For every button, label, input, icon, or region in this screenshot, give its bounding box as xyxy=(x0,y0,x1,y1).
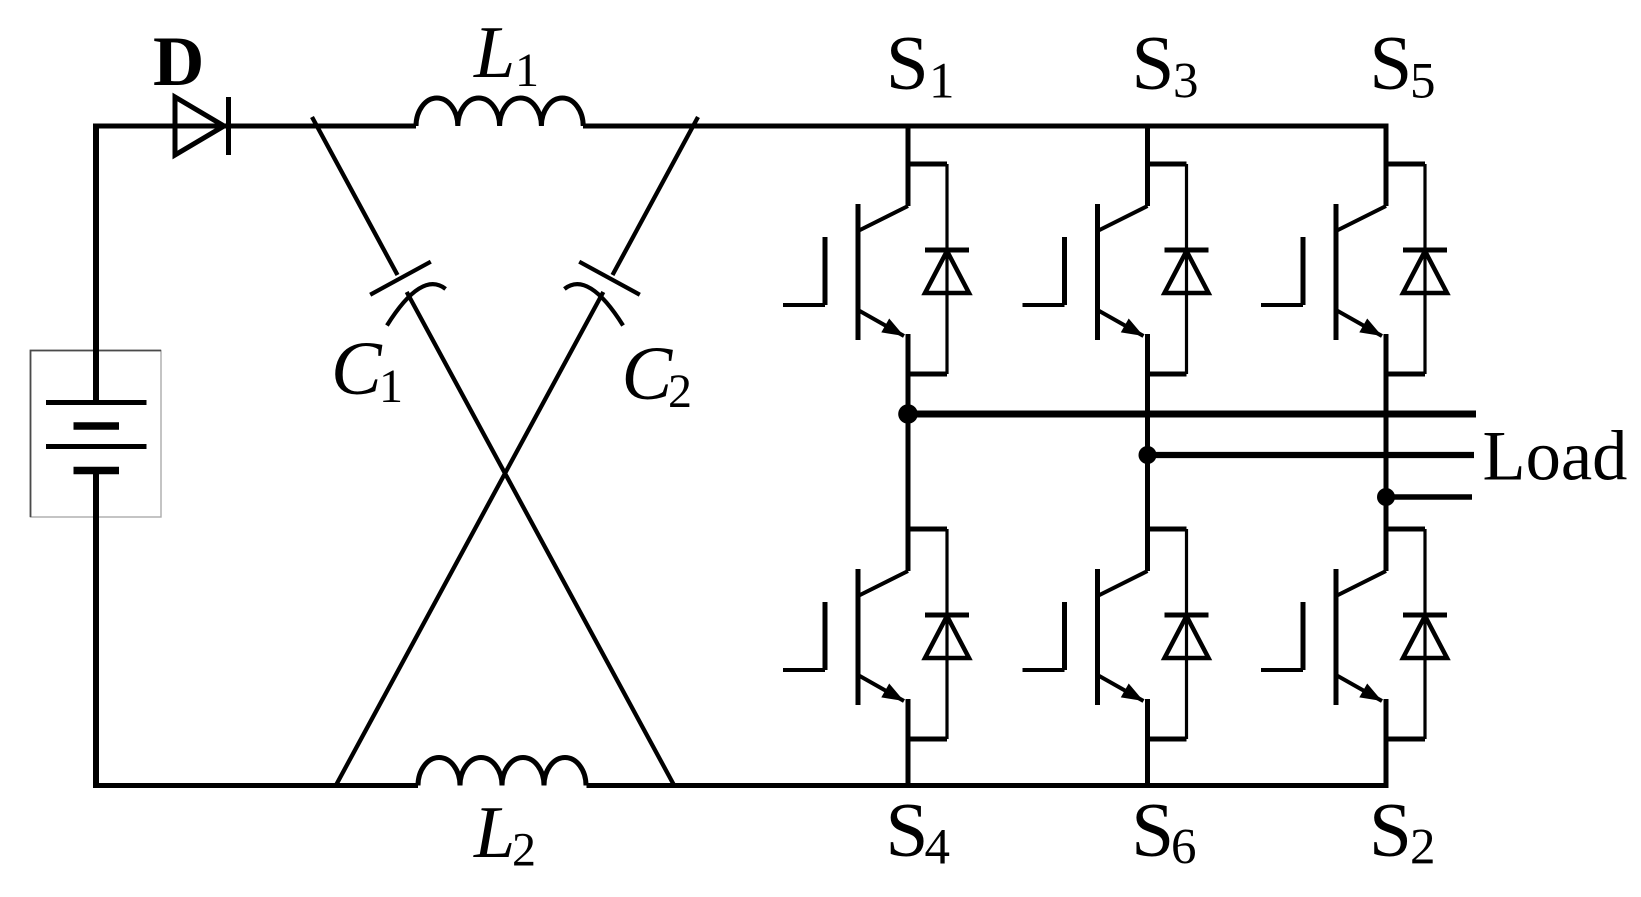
phase line C xyxy=(1386,494,1472,500)
label S2 xyxy=(1369,787,1436,876)
label C1 xyxy=(331,327,403,413)
svg-text:D: D xyxy=(153,23,204,101)
wire diagonal X left upper xyxy=(312,117,398,275)
svg-text:S: S xyxy=(886,787,929,873)
battery box xyxy=(31,351,162,518)
label S6 xyxy=(1131,787,1196,876)
label L1 xyxy=(473,12,539,97)
svg-text:L: L xyxy=(473,12,515,94)
wire bottom rail right xyxy=(587,783,1387,788)
label S1 xyxy=(886,20,955,110)
capacitor C1 xyxy=(370,262,447,326)
transistor S4 (IGBT) xyxy=(783,374,947,788)
svg-text:2: 2 xyxy=(512,824,536,877)
svg-text:4: 4 xyxy=(925,820,951,876)
antiparallel diode of S2 xyxy=(1403,529,1447,739)
node C junction dot xyxy=(1377,488,1395,506)
diode D xyxy=(175,97,229,155)
inductor L1 xyxy=(416,98,583,126)
transistor S5 (IGBT) xyxy=(1261,124,1425,375)
svg-text:2: 2 xyxy=(1410,820,1436,876)
wire diagonal X left lower xyxy=(407,292,675,787)
node B junction dot xyxy=(1139,446,1157,464)
label S5 xyxy=(1369,20,1435,110)
node A junction dot xyxy=(898,404,918,424)
svg-text:C: C xyxy=(622,332,674,416)
antiparallel diode of S4 xyxy=(925,529,969,739)
battery source plates xyxy=(46,403,147,471)
svg-text:L: L xyxy=(473,792,515,874)
svg-text:C: C xyxy=(331,327,383,411)
transistor S3 (IGBT) xyxy=(1023,124,1187,375)
antiparallel diode of S1 xyxy=(925,164,969,374)
wire bottom rail left xyxy=(93,783,418,788)
svg-text:5: 5 xyxy=(1410,54,1436,110)
capacitor C2 xyxy=(562,262,639,326)
phase line B xyxy=(1148,452,1475,458)
svg-text:1: 1 xyxy=(929,54,955,110)
label C2 xyxy=(622,332,693,418)
label S3 xyxy=(1132,20,1199,110)
svg-text:1: 1 xyxy=(515,44,539,97)
antiparallel diode of S3 xyxy=(1165,164,1209,374)
svg-text:S: S xyxy=(886,20,929,106)
label S4 xyxy=(886,787,951,876)
antiparallel diode of S6 xyxy=(1165,529,1209,739)
svg-text:S: S xyxy=(1131,787,1174,873)
antiparallel diode of S5 xyxy=(1403,164,1447,374)
wire left vertical bottom xyxy=(93,471,99,789)
transistor S2 (IGBT) xyxy=(1261,374,1425,788)
svg-text:S: S xyxy=(1369,787,1412,873)
label L2 xyxy=(473,792,536,877)
transistor S1 (IGBT) xyxy=(783,124,947,375)
svg-text:2: 2 xyxy=(668,365,692,418)
svg-text:Load: Load xyxy=(1483,418,1628,496)
inductor L2 xyxy=(418,758,586,786)
svg-text:S: S xyxy=(1369,20,1412,106)
wire top rail right xyxy=(583,124,1386,129)
wire diagonal X right lower xyxy=(335,292,603,787)
svg-text:6: 6 xyxy=(1171,820,1197,876)
phase line A xyxy=(908,411,1476,418)
wire left vertical top xyxy=(93,124,99,405)
wire diagonal X right upper xyxy=(613,117,699,275)
wire top rail left xyxy=(93,124,416,129)
transistor S6 (IGBT) xyxy=(1023,374,1187,788)
svg-text:1: 1 xyxy=(379,360,403,413)
svg-text:3: 3 xyxy=(1173,54,1199,110)
svg-text:S: S xyxy=(1132,20,1175,106)
